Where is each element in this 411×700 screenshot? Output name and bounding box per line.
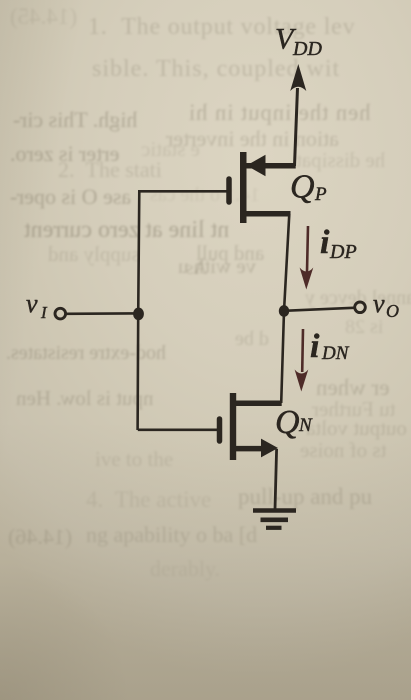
wire input — [66, 312, 140, 315]
QN source lead — [232, 446, 263, 452]
current arrow iDP — [300, 226, 314, 290]
node input junction — [133, 308, 144, 321]
svg-text:Q: Q — [275, 404, 300, 441]
svg-text:i: i — [310, 328, 320, 365]
wire output — [284, 308, 354, 311]
svg-text:Q: Q — [290, 169, 315, 206]
current arrow iDN — [295, 329, 309, 392]
wire VDD vertical — [295, 88, 298, 166]
QN channel bar — [230, 393, 236, 460]
QP source arrow (PMOS, points into channel) — [247, 155, 266, 176]
svg-text:v: v — [26, 289, 38, 318]
QP drain lead — [241, 211, 291, 217]
VDD arrowhead — [290, 64, 306, 91]
QP gate wire — [139, 190, 227, 193]
ground — [253, 508, 296, 513]
bleed-through text layer — [10, 4, 77, 30]
wire output bus — [281, 214, 289, 403]
node output junction — [279, 305, 289, 317]
QN gate bar — [217, 419, 223, 441]
svg-text:N: N — [298, 415, 313, 436]
svg-text:DP: DP — [329, 241, 357, 263]
wire QN source to ground — [275, 449, 277, 509]
QP channel bar — [240, 152, 247, 223]
svg-text:O: O — [386, 301, 399, 321]
svg-text:i: i — [320, 224, 330, 261]
output terminal circle — [355, 302, 366, 313]
svg-text:v: v — [373, 289, 385, 318]
transistor QP source lead — [241, 163, 296, 169]
input terminal circle — [55, 308, 66, 319]
QP gate bar — [226, 179, 232, 202]
svg-text:DD: DD — [292, 38, 322, 60]
QN gate wire — [138, 428, 217, 431]
svg-text:I: I — [40, 303, 48, 322]
QN source arrow (NMOS, points out) — [261, 439, 278, 458]
wire gate bus — [138, 190, 140, 430]
svg-text:P: P — [314, 184, 327, 205]
svg-text:DN: DN — [321, 343, 350, 364]
transistor QN drain lead — [232, 400, 282, 406]
